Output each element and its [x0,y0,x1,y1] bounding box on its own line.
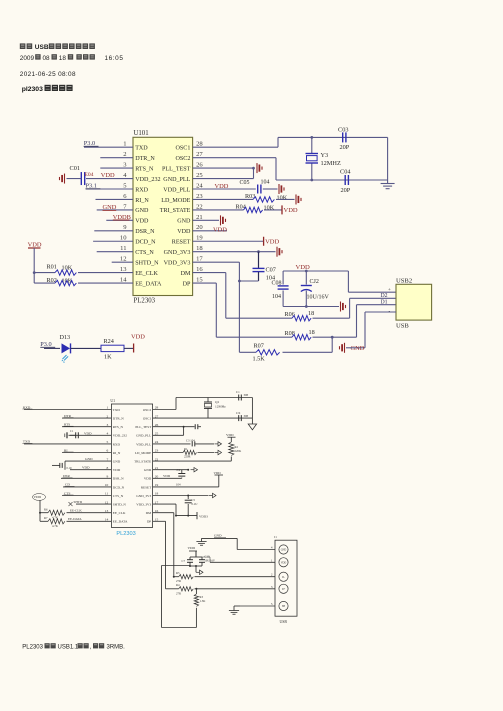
resistor R07 1.5K [239,351,256,353]
earth ground crystal [381,183,395,185]
wire caps bottom join [190,565,202,567]
svg-text:VDD: VDD [188,546,196,550]
svg-text:E04: E04 [85,172,94,178]
svg-text:18: 18 [196,245,203,252]
svg-text:PL2303: PL2303 [22,645,43,651]
svg-text:GND: GND [85,457,93,461]
svg-text:VDD: VDD [177,229,191,235]
wire pin24 VDD_PLL + node VDD [193,188,256,190]
wire pin4 U1 left [70,434,111,436]
svg-text:EE_CLK: EE_CLK [135,271,158,277]
wire USB shield to GND [364,312,366,348]
svg-text:18: 18 [308,310,314,317]
capacitor C12 10U/16V [305,271,307,285]
svg-text:13: 13 [120,266,127,273]
wire pin16 DM down [193,272,226,274]
wire R07 to DP junction [331,337,333,352]
resistor R6 4.7K [40,512,48,514]
svg-text:TRI_STATE: TRI_STATE [160,208,191,214]
wire crystal top rail [278,136,388,138]
svg-text:VDD: VDD [214,471,222,475]
svg-text:DCD_N: DCD_N [113,485,125,489]
svg-text:C01: C01 [70,165,81,172]
wire pin27 OSC2 to crystal bottom [193,157,276,159]
svg-text:DTR_N: DTR_N [135,156,155,162]
svg-text:20P: 20P [340,144,350,151]
wire VDD top rail [283,270,348,272]
svg-text:+: + [388,288,391,293]
svg-text:RXD: RXD [23,405,31,409]
ground GND s2 [196,541,206,543]
svg-text:USB2: USB2 [396,277,412,284]
wire pin28 OSC2 to crystal [153,409,176,411]
svg-text:25: 25 [196,172,203,179]
svg-text:24: 24 [196,182,203,189]
wire USB shield stub [365,311,396,313]
wire pin18 GND_3V3 [193,251,276,253]
wire LED to R24 [71,347,102,349]
svg-text:C7: C7 [182,559,186,563]
svg-text:GND_PLL: GND_PLL [163,177,190,183]
svg-text:VDD_232: VDD_232 [113,434,127,438]
wire pin7 U101 left [97,209,133,211]
svg-text:OSC2: OSC2 [143,408,152,412]
ground at C01 (red) [64,174,66,184]
svg-text:C1: C1 [236,390,240,394]
svg-text:C10: C10 [205,555,211,559]
ground arrow crystal s2 [248,424,256,430]
svg-text:12: 12 [120,256,127,263]
resistor R7 4.7K [40,520,48,522]
wire crystal top rail s2 [176,397,252,399]
wire pin21 s2 [153,469,189,471]
svg-text:10K: 10K [277,194,288,201]
resistor R02 10K [34,282,55,284]
wire DP up to USB D1 [356,305,358,338]
svg-text:DSR_N: DSR_N [135,229,155,235]
wire pin21 GND [193,219,219,221]
svg-text:USB: USB [280,620,288,624]
ground shield s2 [229,610,239,612]
wire P3.0 to LED [44,347,60,349]
svg-text:GND: GND [135,208,149,214]
connector USB body s2 [275,540,297,616]
wire pin5 U1 left [24,443,111,445]
svg-text:2009: 2009 [20,55,35,62]
svg-text:RXD: RXD [135,187,148,193]
svg-text:VDD_3V3: VDD_3V3 [164,260,191,266]
capacitor C7 0.1U s2 [190,556,202,558]
wire pin25 s2 [153,434,184,436]
svg-text:C07: C07 [266,267,276,274]
wire R24 to VDD [124,347,134,349]
capacitor at pin4 with ground [75,432,77,438]
svg-text:16:05: 16:05 [105,55,124,62]
wire pin7 U1 left [65,460,111,462]
svg-text:VDD: VDD [215,183,229,190]
wire pin20 s2 + node VDD [153,477,182,479]
svg-text:27R: 27R [176,591,181,595]
svg-text:VDD: VDD [84,431,92,435]
wire pin12 U1 left [76,503,111,505]
resistor R3 1.5K vertical [195,589,197,594]
svg-text:EE-CLK: EE-CLK [70,508,82,512]
ground at pin21 (red) [220,215,222,225]
ground at USB shield (red) [344,343,346,353]
svg-text:VDD: VDD [113,468,121,472]
wire pin18 s2 [153,495,209,497]
svg-text:1K: 1K [104,354,112,361]
svg-text:USB: USB [35,44,49,51]
USB pin 4 GND circle [279,545,288,554]
svg-text:R24: R24 [104,338,114,345]
svg-text:CX: CX [236,411,241,415]
svg-text:VDD_232: VDD_232 [135,177,160,183]
svg-text:0.1U: 0.1U [67,467,73,470]
svg-text:0.1U: 0.1U [192,502,199,506]
svg-text:18: 18 [59,55,67,62]
wire pin10 U101 left [93,240,133,242]
svg-text:D-: D- [282,576,285,579]
wire pin16 DM down s2 [153,512,174,514]
power VDD at R04 [281,205,283,214]
U101 pin names and numbers [120,141,203,288]
svg-text:1: 1 [123,141,126,148]
svg-text:D1: D1 [381,300,388,306]
svg-text:PL2303: PL2303 [116,531,135,537]
wire pin26 PLL_TEST [193,167,254,169]
svg-text:DM: DM [146,511,151,515]
wire pin4 U101 left [86,178,133,180]
ground at C05 (red) [278,184,280,194]
svg-text:15: 15 [196,276,203,283]
svg-text:GND_PLL: GND_PLL [136,434,151,438]
wire pin1 U1 left [24,409,111,411]
svg-text:1.5K: 1.5K [253,356,266,363]
svg-text:R6: R6 [44,508,48,512]
ground at pin18 (red) [276,247,278,257]
wire pin17 VDD_3V3 down [193,261,240,263]
svg-text:VDD: VDD [135,219,149,225]
svg-text:104: 104 [272,294,281,300]
svg-text:VDD: VDD [163,474,171,478]
capacitor C08 104 [282,271,284,285]
svg-text:VDD_PLL: VDD_PLL [163,187,190,193]
capacitor C10 10U/16V s2 [201,557,203,560]
wire pin6 U101 left [96,198,134,200]
wire pin2 U101 left [100,157,133,159]
wire pin19 RESET to VDD [193,240,264,242]
svg-text:SHTD_N: SHTD_N [135,260,159,266]
svg-text:GND: GND [177,219,191,225]
svg-text:20P: 20P [341,187,351,194]
crystal Y3 12MHZ [311,137,313,153]
svg-text:VDD_PLL: VDD_PLL [136,442,151,446]
ground at pin26 (red) [256,163,258,173]
svg-text:16: 16 [196,266,203,273]
svg-text:EE_DATA: EE_DATA [113,520,128,524]
capacitor C1 top right [238,395,240,401]
svg-text:12MHz: 12MHz [215,405,226,409]
svg-text:RI_N: RI_N [135,198,149,204]
svg-text:10U/16V: 10U/16V [307,294,330,300]
svg-text:DP: DP [147,520,151,524]
svg-text:08: 08 [43,55,51,62]
wire pin26 s2 [153,426,195,428]
svg-text:DSR_N: DSR_N [113,477,124,481]
svg-text:VDD3: VDD3 [199,515,208,519]
wire DM up to USB D2 [349,298,351,318]
wire pin3 U101 left [100,167,133,169]
wire pin15 DP down s2 [153,520,166,522]
svg-text:OSC1: OSC1 [143,417,152,421]
wire pin12 U101 left [112,261,133,263]
svg-text:C08: C08 [272,280,282,286]
svg-text:GND: GND [351,345,365,352]
connector USB2 body [396,284,432,320]
wire pin22 s2 to R2 [153,460,232,462]
svg-text:12MHZ: 12MHZ [321,160,341,167]
svg-text:D13: D13 [60,334,71,341]
resistor R4 27R (D+) [166,588,179,590]
header line1: 常用 USB 转串口芯片介绍 [20,43,26,49]
wire C08/C12 bottom rail to ground [283,306,339,308]
svg-text:R4: R4 [176,583,180,587]
svg-text:pl2303: pl2303 [22,86,43,93]
svg-text:USB: USB [396,323,409,330]
svg-text:GND: GND [144,468,152,472]
svg-text:SHTD_N: SHTD_N [113,503,127,507]
resistor R5 27R (D-) [173,576,175,578]
wire pin24 s2 + cap C3 [153,443,191,445]
svg-text:21: 21 [196,214,203,221]
svg-text:GND_3V3: GND_3V3 [136,494,151,498]
wire pin23 LD_MODE [193,198,253,200]
wire pin17 s2 VDD3 [153,503,176,505]
USB pin 5 SH circle [279,601,288,610]
svg-text:RXD: RXD [113,442,121,446]
svg-text:Q1: Q1 [215,400,220,404]
svg-text:EE_DATA: EE_DATA [135,281,162,287]
wire VDD rail to USB VBUS [347,271,349,292]
svg-text:VDD: VDD [82,466,90,470]
wire right vertical s2 [251,398,253,425]
svg-text:104: 104 [176,483,181,487]
svg-text:P3.0: P3.0 [40,341,51,348]
capacitor C07 104 [258,252,260,268]
svg-text:P3.1: P3.1 [86,182,97,189]
svg-text:DSR: DSR [63,474,70,478]
svg-text:C05: C05 [240,180,250,186]
wire pin5 U101 left [86,188,133,190]
svg-text:PLL_TEST: PLL_TEST [162,166,191,172]
svg-text:17: 17 [196,256,203,263]
svg-text:DCD_N: DCD_N [135,240,156,246]
svg-text:GND: GND [113,460,121,464]
wire pin8 U1 left [70,469,111,471]
svg-text:VDD: VDD [131,333,145,340]
wire pin25 GND_PLL [193,178,254,180]
svg-text:D2: D2 [381,293,388,299]
svg-text:20: 20 [196,224,203,231]
svg-text:OSC2: OSC2 [175,156,190,162]
svg-text:LD_MODE: LD_MODE [161,198,190,204]
svg-text:23: 23 [196,193,203,200]
svg-text:VDD: VDD [226,433,234,437]
svg-text:TRI_STATE: TRI_STATE [134,460,151,464]
wire right rail to ground [387,137,389,183]
svg-text:J1: J1 [274,535,277,539]
svg-text:D+: D+ [282,588,286,591]
USB pin 1 VDD circle [279,558,288,567]
wire pin1 U101 left [84,146,133,148]
wire C07 to VDD3V3 node [239,280,258,282]
svg-text:DTR: DTR [64,414,72,418]
wire pin3 U1 left [62,426,111,428]
svg-text:VDD_3V3: VDD_3V3 [136,503,151,507]
svg-text:DP: DP [183,281,191,287]
capacitor C2 between pin7/pin8 [64,461,66,470]
svg-text:C04: C04 [340,169,351,176]
svg-text:VDD: VDD [281,562,287,565]
svg-text:CD: CD [65,483,70,487]
svg-text:CTS_N: CTS_N [113,494,124,498]
svg-text:28: 28 [196,141,203,148]
svg-text:TXD: TXD [113,408,121,412]
svg-text:30P: 30P [244,414,249,418]
svg-text:RTS_N: RTS_N [135,166,154,172]
capacitor C4 s2 [181,477,183,480]
svg-text:SH: SH [282,605,285,608]
svg-text:11: 11 [120,245,126,252]
U1 pin names and numbers [105,406,159,524]
power VDD at R24 [133,344,135,353]
wire GND to USB pin4 [236,538,238,549]
svg-text:VDD: VDD [296,264,311,271]
ground at C12 (red) [340,302,342,312]
wire pin11 U101 left [97,251,133,253]
svg-text:220K: 220K [235,449,243,453]
svg-text:VDD: VDD [101,172,115,179]
wire shield to USB pin5 [240,605,275,607]
svg-text:10: 10 [120,235,127,242]
svg-text:DM: DM [181,271,191,277]
svg-text:18: 18 [309,329,315,336]
svg-text:27: 27 [196,151,203,158]
svg-text:14: 14 [120,276,127,283]
svg-text:19: 19 [196,235,203,242]
svg-text:VDD: VDD [265,238,279,245]
wire pin23 s2 + resistor R1 220R [153,452,183,454]
svg-text:R1: R1 [184,447,188,451]
wire pin28 OSC1 to crystal top [193,146,278,148]
wire pin10 U1 left [63,486,111,488]
op IC U101 PL2303 body [133,137,193,295]
svg-text:USB1.1: USB1.1 [58,645,79,651]
USB pin 2 D- circle [279,572,288,581]
svg-text:EE-DATA: EE-DATA [68,517,82,521]
svg-text:TXD: TXD [135,146,148,152]
wire pin27 OSC1 rail s2 [153,417,253,419]
USB pin 3 D+ circle [279,584,288,593]
svg-text:VDD: VDD [284,207,298,214]
wire crystal bottom rail [276,179,388,181]
capacitor C5 0.1U s2 [187,496,189,500]
svg-text:GND: GND [214,534,222,538]
svg-text:CTS_N: CTS_N [135,250,154,256]
wire pin9 U101 left [94,230,133,232]
svg-text:DTR_N: DTR_N [113,417,124,421]
svg-text:RTS_N: RTS_N [113,425,124,429]
svg-text:U1: U1 [110,399,115,403]
svg-text:1.5K: 1.5K [200,599,207,603]
svg-text:LD_MODE: LD_MODE [135,451,151,455]
svg-text:R5: R5 [176,571,180,575]
svg-text:GND_3V3: GND_3V3 [164,250,191,256]
wire pin15 DP down [193,282,217,284]
wire pin9 U1 left [61,477,111,479]
svg-text:GND: GND [281,549,287,552]
svg-text:Y3: Y3 [321,152,329,159]
svg-text:26: 26 [196,162,203,169]
svg-text:OSC1: OSC1 [175,146,190,152]
crystal Q1 12MHz [207,398,209,403]
svg-text:SHTD: SHTD [74,500,83,504]
op IC U1 body (second schematic) [111,404,152,527]
svg-text:220R: 220R [184,455,191,459]
svg-text:CJ2: CJ2 [310,279,319,285]
svg-text:U101: U101 [134,130,149,137]
svg-text:2021-06-25 08:08: 2021-06-25 08:08 [20,71,76,78]
svg-text:R7: R7 [44,516,48,520]
svg-text:22: 22 [196,203,203,210]
wire R3 loop to VDD3 rail [195,608,197,628]
wire pin8 U101 left [106,219,133,221]
svg-text:VDD: VDD [144,477,152,481]
wire VDD rail bottom left [39,500,41,521]
svg-text:C3 104: C3 104 [186,439,195,443]
wire VDD to USB pin1 [195,551,197,557]
power VDD at RESET [263,237,265,246]
svg-text:30P: 30P [244,393,249,397]
svg-text:RTS: RTS [64,423,70,427]
svg-text:PL2303: PL2303 [134,298,156,305]
wire pin22 TRI_STATE [193,209,244,211]
svg-text:PLL_TEST: PLL_TEST [135,425,152,429]
resistor R08 18 (DP) [216,336,292,338]
resistor R06 18 (DM) [226,317,292,319]
svg-text:RI_N: RI_N [113,451,121,455]
wire pin2 U1 left [62,417,111,419]
svg-text:VDD: VDD [34,495,42,499]
svg-text:TXD: TXD [23,440,31,444]
svg-text:RESET: RESET [172,240,191,246]
svg-text:R01: R01 [47,263,57,270]
capacitor CX bottom right [238,415,240,421]
wire pin11 U1 left [62,495,111,497]
svg-text:VDD: VDD [213,227,227,234]
svg-text:2: 2 [123,151,126,158]
wire pin19 RESET s2 [153,486,219,488]
wire pin20 VDD + node VDD [193,230,227,232]
ground at R03 (red) [295,194,297,204]
svg-text:RESET: RESET [141,485,152,489]
svg-text:EE_CLK: EE_CLK [113,511,126,515]
svg-text:CTS: CTS [64,491,70,495]
wire pin6 U1 left [62,452,111,454]
no-connect X + SHTD label pin12 [69,502,73,506]
svg-text:R07: R07 [254,343,264,350]
